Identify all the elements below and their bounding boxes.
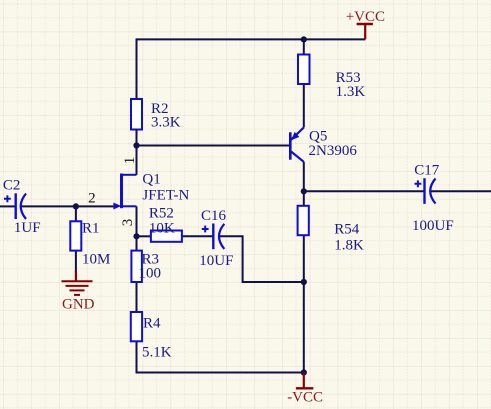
svg-text:1: 1 [122,157,138,165]
svg-text:2N3906: 2N3906 [309,143,358,159]
wire rail to R2 top [136,38,138,99]
resistor R3 [131,251,161,282]
wire Q1 source down to node3 [136,206,138,250]
capacitor C2 [3,178,41,237]
svg-text:100: 100 [139,266,162,282]
wire R52 to C16 [182,235,213,237]
svg-text:C2: C2 [3,178,21,194]
capacitor C16 [199,208,233,269]
ground GND [62,271,95,313]
svg-text:1UF: 1UF [14,220,41,236]
power +VCC [346,9,385,39]
wire C2 to gate [21,205,115,207]
wire VCC rail to R53 [303,38,305,54]
svg-text:3.3K: 3.3K [151,115,181,131]
resistor R52 [149,206,182,242]
junction node 3 [133,233,139,239]
resistor R4 [131,312,172,361]
wire R54 to node C16 junction to bottom rail [303,235,305,372]
junction vcc [301,36,307,42]
svg-text:R1: R1 [82,221,100,237]
power -VCC [287,373,323,406]
svg-text:100UF: 100UF [412,218,454,234]
wire input from left edge [0,205,16,207]
wire R3 to R4 [136,282,138,312]
svg-text:R54: R54 [334,222,360,238]
svg-text:+VCC: +VCC [346,9,385,25]
svg-text:GND: GND [62,297,95,313]
svg-text:2: 2 [88,191,96,207]
svg-text:3: 3 [120,219,136,227]
wire C17 to right edge [430,190,491,192]
wire node3 to R52 [137,235,152,237]
wire C16 to R54 branch [219,236,304,282]
svg-text:10UF: 10UF [199,253,233,269]
svg-text:Q1: Q1 [142,172,160,188]
wire Q5 collector to node out [303,162,305,206]
svg-text:1.8K: 1.8K [334,238,364,254]
wire node1 to Q5 base [137,145,290,147]
capacitor C17 [412,163,454,235]
svg-text:C17: C17 [414,163,440,179]
svg-text:10M: 10M [82,251,110,267]
wire top rail [137,38,366,40]
svg-text:R4: R4 [143,316,161,332]
svg-text:-VCC: -VCC [287,390,323,406]
resistor R1 [70,221,110,268]
wire node2 to R1 [75,206,77,221]
wire output to C17 [304,190,425,192]
junction node 1 [133,142,139,148]
svg-text:10K: 10K [149,221,175,237]
wire R2 bottom to drain [136,130,138,175]
resistor R54 [298,206,364,254]
junction node 2 [73,203,79,209]
wire R1 to GND [75,251,77,272]
svg-text:C16: C16 [201,208,227,224]
svg-text:R52: R52 [149,206,174,222]
resistor R2 [131,99,181,131]
svg-text:1.3K: 1.3K [336,84,366,100]
resistor R53 [298,55,365,101]
transistor Q5 [290,128,357,162]
wire R4 to bottom rail [137,341,304,372]
transistor Q1 [88,157,189,227]
svg-text:5.1K: 5.1K [142,345,172,361]
junction -vcc [301,369,307,375]
junction c16 [301,279,307,285]
junction output [301,188,307,194]
svg-text:JFET-N: JFET-N [142,188,189,204]
wire R53 to Q5 emitter [303,84,305,128]
